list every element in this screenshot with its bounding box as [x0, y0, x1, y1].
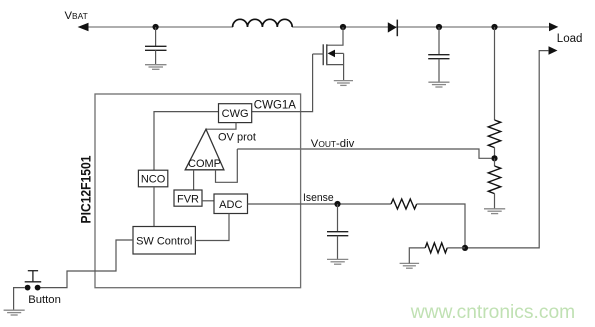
wire Q1 drain lead [327, 27, 343, 45]
wire SW Control to ADC [195, 214, 229, 241]
node junction J2 [340, 24, 346, 30]
resistor R3 [391, 199, 417, 209]
node junction J5 [462, 245, 468, 251]
inductor L1 [233, 19, 293, 27]
wire R2 bottom lead [494, 194, 496, 209]
op-amp COMP triangle [185, 129, 224, 170]
wire GND6 to R4 [409, 248, 425, 263]
wire R3 to node [417, 204, 465, 248]
wire R4 to node [447, 247, 465, 249]
block CWG [219, 104, 252, 123]
svg-text:FVR: FVR [177, 193, 199, 205]
node junction J4 [491, 24, 497, 30]
svg-text:CWG1A: CWG1A [254, 100, 296, 112]
block FVR [174, 190, 202, 206]
node Load arrow [549, 23, 558, 32]
svg-text:OV prot: OV prot [218, 132, 256, 144]
resistor R2 [494, 158, 496, 166]
svg-text:Load: Load [557, 33, 583, 45]
wire C1 bottom lead [155, 50, 157, 64]
wire C2 top lead [438, 27, 440, 55]
svg-text:www.cntronics.com: www.cntronics.com [410, 301, 575, 323]
node divider junction [491, 155, 497, 161]
capacitor C3 [327, 232, 348, 236]
wire button net [41, 240, 134, 288]
ground GND7 [4, 310, 25, 315]
svg-text:CWG: CWG [222, 108, 249, 120]
chip PIC12F1501 box [95, 94, 301, 288]
wire button to ground [14, 288, 25, 310]
wire NCO to SW Control [153, 187, 155, 227]
transistor Q1 [313, 44, 344, 80]
ground GND4 [484, 209, 505, 214]
node Isense junction [334, 201, 340, 207]
svg-text:COMP: COMP [188, 158, 221, 170]
svg-text:VOUT-div: VOUT-div [311, 138, 355, 150]
node junction J1 [153, 24, 159, 30]
wire C2 bottom lead [438, 59, 440, 82]
wire CWG to COMP [206, 123, 236, 130]
wire VOUT-div [237, 149, 491, 158]
svg-text:ADC: ADC [219, 199, 242, 211]
wire C1 top lead [155, 27, 157, 46]
node junction J3 [436, 24, 442, 30]
wire FVR to ADC [202, 200, 214, 202]
block NCO [138, 170, 167, 187]
svg-text:Isense: Isense [303, 192, 334, 204]
wire COMP inverting input to FVR [193, 170, 195, 190]
wire main top rail [84, 26, 233, 28]
block ADC [214, 194, 248, 214]
wire COMP noninverting input [216, 149, 238, 182]
svg-text:VBAT: VBAT [65, 10, 88, 22]
capacitor C1 [145, 46, 167, 50]
svg-text:PIC12F1501: PIC12F1501 [78, 155, 94, 223]
resistor R1 [488, 120, 500, 148]
wire C3 bottom lead [337, 236, 339, 260]
wire R1 to node [494, 148, 496, 159]
wire C3 top lead [337, 204, 339, 232]
ground GND2 [334, 81, 353, 86]
ground GND3 [428, 82, 449, 87]
wire Isense net [248, 203, 392, 205]
wire divider top lead [494, 27, 496, 120]
block SW Control [133, 227, 195, 255]
svg-text:NCO: NCO [141, 174, 166, 186]
wire NCO to CWG [154, 112, 219, 171]
wire load return [465, 51, 549, 248]
ground GND1 [145, 65, 167, 70]
ground GND5 [327, 259, 348, 264]
switch button [25, 271, 42, 291]
node VBAT arrow [78, 23, 89, 32]
diode D1 [388, 20, 398, 37]
wire CWG1A net [252, 54, 313, 112]
ground GND6 [400, 263, 420, 268]
svg-text:SW Control: SW Control [136, 236, 192, 248]
resistor R4 [425, 243, 447, 253]
node Load return arrow [549, 46, 558, 55]
capacitor C2 [428, 55, 449, 59]
svg-text:Button: Button [28, 294, 61, 306]
